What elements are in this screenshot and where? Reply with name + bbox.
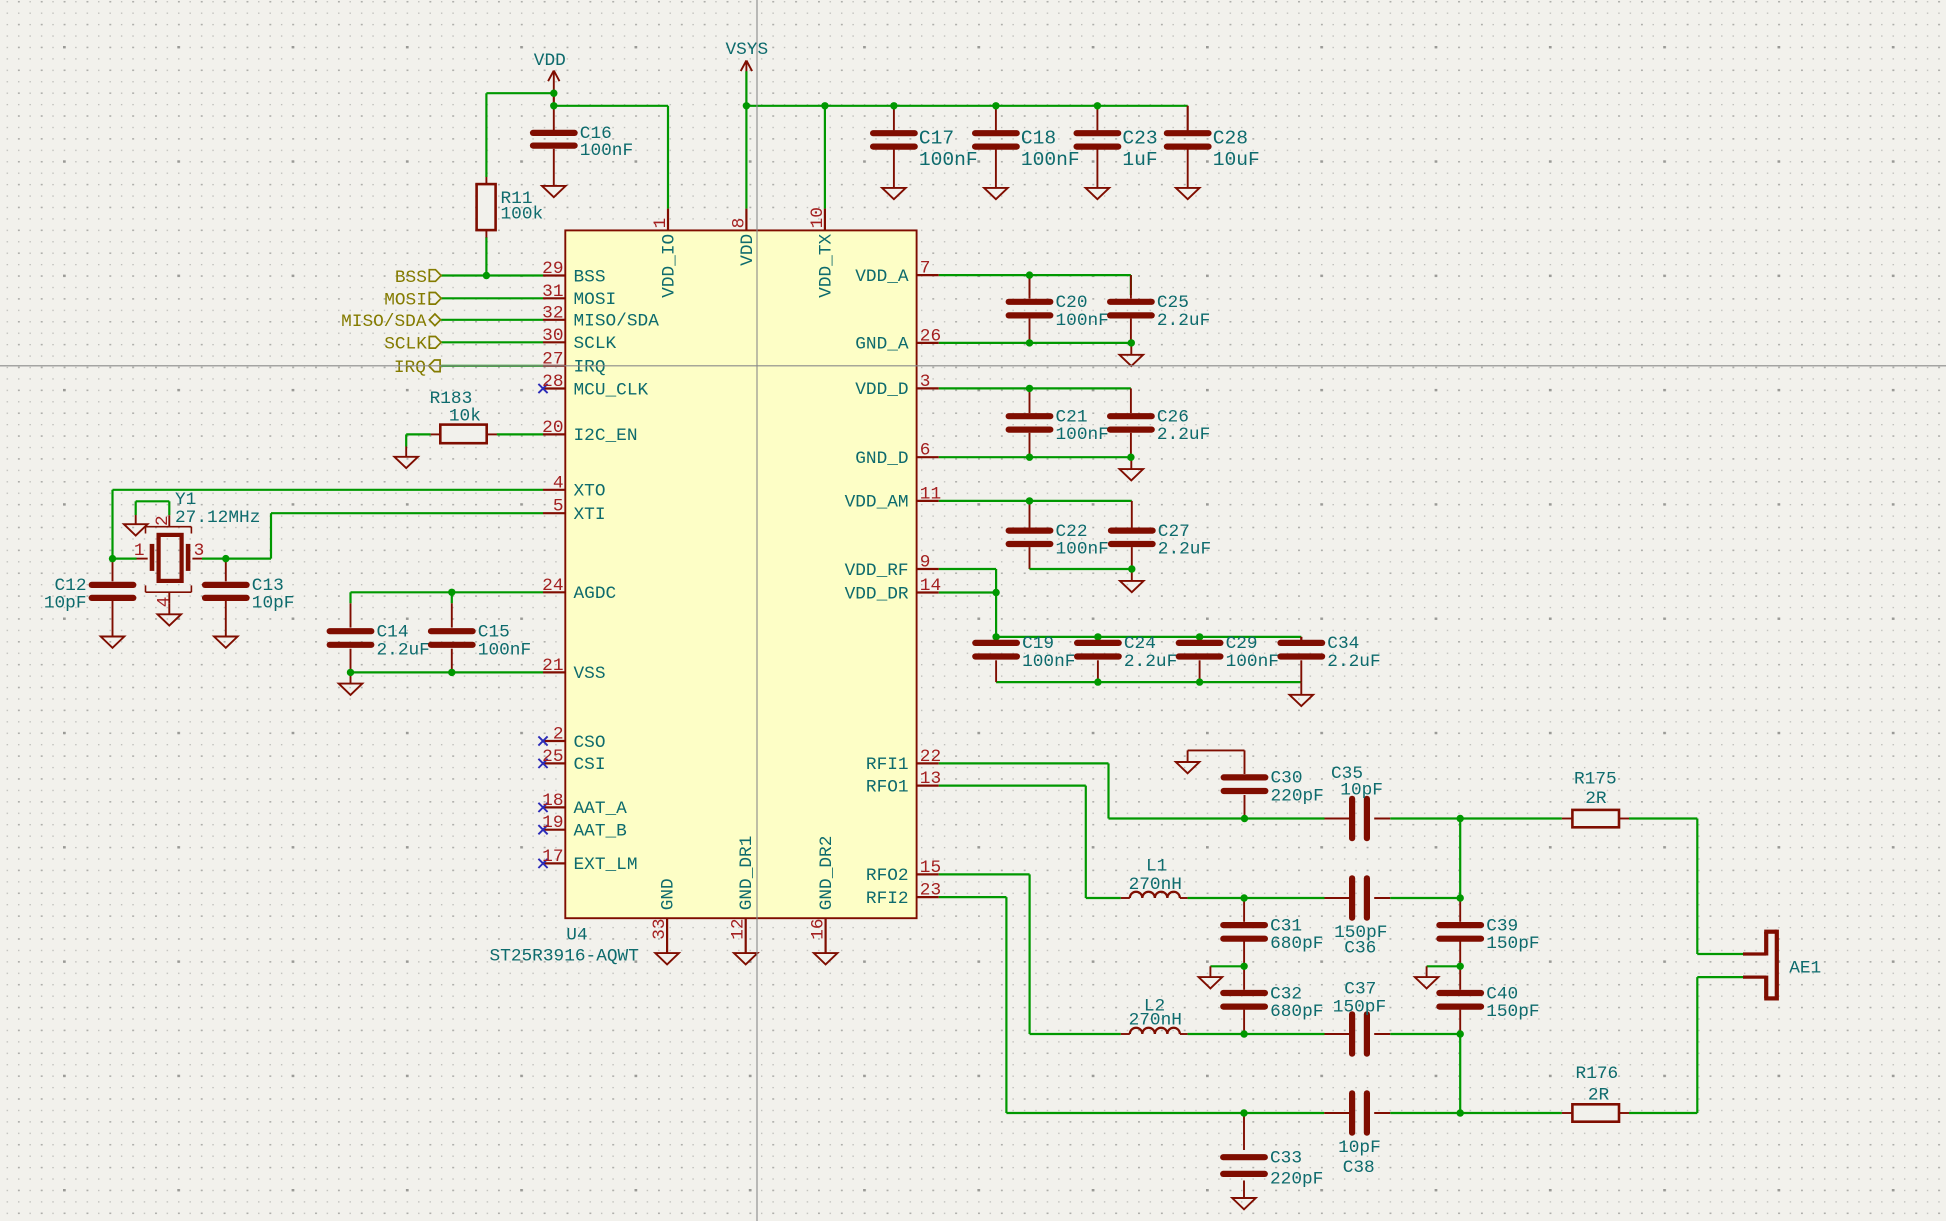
svg-text:28: 28 — [542, 372, 563, 392]
svg-text:10uF: 10uF — [1213, 149, 1260, 171]
svg-text:100nF: 100nF — [919, 149, 978, 171]
svg-text:2.2uF: 2.2uF — [377, 640, 430, 660]
svg-text:C37: C37 — [1344, 980, 1376, 1000]
svg-text:2.2uF: 2.2uF — [1124, 652, 1177, 672]
svg-text:26: 26 — [920, 326, 941, 346]
svg-text:MISO/SDA: MISO/SDA — [574, 312, 660, 332]
svg-text:2.2uF: 2.2uF — [1327, 652, 1380, 672]
svg-text:VDD_A: VDD_A — [855, 267, 909, 287]
svg-text:150pF: 150pF — [1486, 1002, 1539, 1022]
svg-text:220pF: 220pF — [1270, 1169, 1323, 1189]
svg-text:270nH: 270nH — [1129, 1010, 1182, 1030]
svg-text:U4: U4 — [566, 926, 587, 946]
svg-text:23: 23 — [920, 881, 941, 901]
svg-text:RFI1: RFI1 — [866, 755, 909, 775]
svg-text:18: 18 — [542, 791, 563, 811]
svg-text:MOSI: MOSI — [574, 290, 617, 310]
svg-text:AGDC: AGDC — [574, 584, 617, 604]
svg-text:BSS: BSS — [395, 268, 427, 288]
svg-text:19: 19 — [542, 813, 563, 833]
svg-text:IRQ: IRQ — [574, 358, 606, 378]
svg-text:L1: L1 — [1146, 857, 1167, 877]
svg-text:270nH: 270nH — [1129, 875, 1182, 895]
svg-text:SCLK: SCLK — [574, 334, 617, 354]
svg-text:CSI: CSI — [574, 755, 606, 775]
svg-text:RFI2: RFI2 — [866, 889, 909, 909]
svg-text:4: 4 — [553, 473, 564, 493]
svg-text:2.2uF: 2.2uF — [1157, 425, 1210, 445]
svg-text:C33: C33 — [1270, 1149, 1302, 1169]
svg-text:IRQ: IRQ — [394, 358, 426, 378]
svg-text:GND: GND — [659, 878, 679, 910]
svg-text:SCLK: SCLK — [384, 335, 427, 355]
svg-text:GND_DR2: GND_DR2 — [817, 836, 837, 911]
svg-text:8: 8 — [729, 218, 749, 229]
svg-text:30: 30 — [542, 326, 563, 346]
svg-text:150pF: 150pF — [1333, 998, 1386, 1018]
svg-text:VDD: VDD — [738, 234, 758, 266]
svg-text:680pF: 680pF — [1270, 1002, 1323, 1022]
svg-text:5: 5 — [553, 497, 564, 517]
svg-text:1uF: 1uF — [1122, 149, 1157, 171]
svg-text:ST25R3916-AQWT: ST25R3916-AQWT — [490, 946, 639, 966]
svg-text:100nF: 100nF — [1056, 425, 1109, 445]
svg-text:VDD_DR: VDD_DR — [845, 584, 909, 604]
svg-text:680pF: 680pF — [1270, 934, 1323, 954]
svg-text:13: 13 — [920, 769, 941, 789]
svg-text:1: 1 — [134, 541, 145, 561]
svg-text:220pF: 220pF — [1271, 787, 1324, 807]
svg-text:C28: C28 — [1213, 127, 1248, 149]
svg-text:100nF: 100nF — [478, 640, 531, 660]
svg-text:RFO1: RFO1 — [866, 777, 909, 797]
svg-text:VDD_AM: VDD_AM — [845, 493, 909, 513]
svg-text:VDD_IO: VDD_IO — [659, 234, 679, 298]
svg-text:GND_DR1: GND_DR1 — [737, 836, 757, 911]
svg-text:VSYS: VSYS — [725, 40, 768, 60]
svg-text:Y1: Y1 — [175, 490, 196, 510]
svg-text:EXT_LM: EXT_LM — [574, 855, 638, 875]
svg-text:10pF: 10pF — [44, 593, 87, 613]
svg-text:C17: C17 — [919, 127, 954, 149]
svg-text:VSS: VSS — [574, 664, 606, 684]
svg-text:10pF: 10pF — [252, 593, 295, 613]
svg-text:25: 25 — [542, 747, 563, 767]
svg-text:100nF: 100nF — [1022, 652, 1075, 672]
svg-text:3: 3 — [920, 372, 931, 392]
svg-text:BSS: BSS — [574, 267, 606, 287]
svg-text:10pF: 10pF — [1338, 1138, 1381, 1158]
svg-text:33: 33 — [650, 918, 670, 939]
svg-text:24: 24 — [542, 576, 563, 596]
svg-text:21: 21 — [542, 656, 563, 676]
svg-text:MISO/SDA: MISO/SDA — [341, 312, 427, 332]
svg-text:22: 22 — [920, 747, 941, 767]
svg-text:31: 31 — [542, 282, 563, 302]
svg-text:C23: C23 — [1122, 127, 1157, 149]
svg-text:VDD: VDD — [534, 51, 566, 71]
svg-text:100k: 100k — [501, 204, 544, 224]
svg-text:15: 15 — [920, 858, 941, 878]
svg-text:27.12MHz: 27.12MHz — [175, 508, 260, 528]
svg-text:32: 32 — [542, 303, 563, 323]
svg-text:2: 2 — [553, 725, 564, 745]
svg-text:20: 20 — [542, 418, 563, 438]
svg-text:100nF: 100nF — [1056, 311, 1109, 331]
svg-text:C18: C18 — [1021, 127, 1056, 149]
svg-text:AAT_B: AAT_B — [574, 822, 627, 842]
svg-text:MOSI: MOSI — [384, 291, 427, 311]
svg-text:2.2uF: 2.2uF — [1157, 311, 1210, 331]
svg-text:I2C_EN: I2C_EN — [574, 426, 638, 446]
svg-text:C36: C36 — [1344, 939, 1376, 959]
svg-text:100nF: 100nF — [1056, 540, 1109, 560]
svg-text:R175: R175 — [1574, 770, 1617, 790]
svg-text:100nF: 100nF — [1021, 149, 1080, 171]
svg-text:14: 14 — [920, 576, 941, 596]
svg-text:2.2uF: 2.2uF — [1158, 540, 1211, 560]
svg-text:2R: 2R — [1588, 1085, 1610, 1105]
svg-text:12: 12 — [729, 918, 749, 939]
svg-text:10k: 10k — [449, 406, 481, 426]
svg-text:RFO2: RFO2 — [866, 866, 909, 886]
svg-text:11: 11 — [920, 484, 941, 504]
svg-text:R176: R176 — [1576, 1064, 1619, 1084]
svg-text:C38: C38 — [1343, 1158, 1375, 1178]
svg-text:MCU_CLK: MCU_CLK — [574, 380, 649, 400]
svg-text:100nF: 100nF — [580, 141, 633, 161]
svg-text:GND_D: GND_D — [855, 449, 908, 469]
svg-text:VDD_D: VDD_D — [855, 380, 908, 400]
svg-text:10pF: 10pF — [1340, 780, 1383, 800]
svg-text:2: 2 — [153, 515, 173, 526]
svg-text:7: 7 — [920, 259, 931, 279]
svg-text:4: 4 — [154, 597, 174, 608]
svg-text:17: 17 — [542, 847, 563, 867]
svg-text:10: 10 — [808, 207, 828, 228]
svg-text:XTO: XTO — [574, 482, 606, 502]
svg-text:29: 29 — [542, 259, 563, 279]
svg-text:1: 1 — [651, 218, 671, 229]
svg-text:VDD_RF: VDD_RF — [845, 561, 909, 581]
svg-text:VDD_TX: VDD_TX — [816, 233, 836, 297]
svg-text:AAT_A: AAT_A — [574, 799, 628, 819]
svg-text:GND_A: GND_A — [855, 335, 909, 355]
svg-text:9: 9 — [920, 553, 931, 573]
svg-text:2R: 2R — [1585, 789, 1607, 809]
svg-text:6: 6 — [920, 441, 931, 461]
svg-text:16: 16 — [809, 918, 829, 939]
svg-text:CSO: CSO — [574, 733, 606, 753]
svg-text:150pF: 150pF — [1486, 934, 1539, 954]
svg-text:100nF: 100nF — [1226, 652, 1279, 672]
svg-text:XTI: XTI — [574, 505, 606, 525]
svg-text:3: 3 — [194, 541, 205, 561]
svg-text:AE1: AE1 — [1789, 958, 1821, 978]
